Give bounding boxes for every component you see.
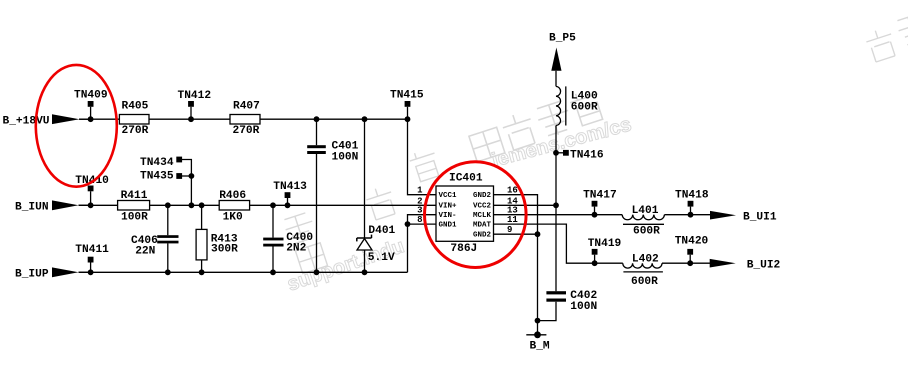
svg-text:270R: 270R [233,125,260,137]
svg-text:MCLK: MCLK [473,212,492,220]
svg-text:B_UI2: B_UI2 [747,259,781,271]
wire IC pin 11 MDAT elbow to L402 row [494,224,623,263]
test point TN410 [75,175,109,206]
wire IC pin 8 stub to riser [408,223,437,225]
wire L401 to B_UI1 arrow [664,214,710,216]
junction node C406 bottom [165,269,171,275]
svg-text:8: 8 [417,215,422,225]
svg-text:B_M: B_M [530,340,550,352]
svg-text:TN411: TN411 [75,244,109,256]
svg-text:270R: 270R [122,125,149,137]
svg-text:B_+18VU: B_+18VU [3,116,50,128]
resistor R413 [196,229,238,260]
port B_UI2 output arrow [710,259,781,271]
junction node TN416 [553,150,559,156]
svg-text:100N: 100N [570,301,597,313]
wire IC pin 14 to B_P5 rail [494,204,557,206]
svg-text:TN415: TN415 [390,90,424,102]
svg-text:TN416: TN416 [570,149,604,161]
svg-text:B_P5: B_P5 [549,32,576,44]
svg-text:2N2: 2N2 [286,243,306,255]
wire D401 branch [364,119,366,238]
test point TN420 [675,236,709,264]
wire TN434 stub and riser to B_IUN rail [182,160,191,206]
junction node TN420 [687,260,693,266]
svg-text:786J: 786J [450,243,477,255]
wire net B_+18VU top rail [79,118,408,120]
svg-text:22N: 22N [135,245,155,257]
junction node TN418 [688,212,694,218]
junction node pin9 rail [535,231,541,237]
svg-text:B_IUP: B_IUP [15,269,49,281]
svg-text:9: 9 [507,225,512,235]
capacitor C406 [131,235,179,257]
test point TN409 [74,90,108,120]
junction node C400 bottom [270,269,276,275]
inductor L400 [556,86,598,125]
wire IC pin 9 stub [494,233,538,235]
test point TN415 [390,90,424,120]
test point TN417 [583,190,617,215]
port B_IUN input arrow [15,200,88,213]
svg-text:TN434: TN434 [140,157,174,169]
svg-text:300R: 300R [211,244,238,256]
svg-text:600R: 600R [571,101,598,113]
svg-text:L402: L402 [632,253,659,265]
junction node pin14 B_P5 [553,202,559,208]
zener diode D401 5.1V [357,225,396,264]
svg-text:GND2: GND2 [473,192,492,200]
svg-text:VIN-: VIN- [439,212,457,220]
svg-text:B_IUN: B_IUN [15,202,49,214]
svg-text:VCC1: VCC1 [439,192,458,200]
svg-text:100R: 100R [121,212,148,224]
svg-text:GND1: GND1 [439,221,458,229]
svg-text:TN409: TN409 [74,90,108,102]
svg-text:IC401: IC401 [449,172,483,184]
junction node TN409 [88,116,94,122]
svg-text:TN413: TN413 [273,181,307,193]
svg-text:R406: R406 [219,190,246,202]
resistor R405 [119,101,149,137]
wire TN435 stub [182,175,191,177]
wire C401 branch [316,119,318,145]
svg-text:11: 11 [507,215,518,225]
svg-text:MDAT: MDAT [473,221,492,229]
svg-text:R405: R405 [122,101,149,113]
wire B_P5 vertical rail [555,71,557,87]
resistor R406 [219,190,249,224]
test point TN434 [140,157,182,169]
svg-text:1K0: 1K0 [223,212,243,224]
junction node TN417 [592,212,598,218]
svg-text:B_UI1: B_UI1 [743,211,777,223]
wire C402 bottom elbow to ground rail [538,302,557,321]
junction node D401 bottom [362,269,368,275]
port B_P5 output arrow up [549,32,576,71]
svg-text:L401: L401 [632,205,659,217]
svg-text:1: 1 [417,186,423,196]
junction node pin8 riser [405,221,411,227]
wire net B_IUN rail to IC pin 2 [79,204,437,206]
svg-text:100N: 100N [332,151,359,163]
wire C400 branch [272,205,274,237]
junction node C401 top [314,116,320,122]
capacitor C400 [263,232,313,255]
svg-text:TN417: TN417 [583,190,617,202]
port B_+18VU input arrow [3,114,89,127]
svg-text:TN418: TN418 [675,190,709,202]
junction node TN412 [188,116,194,122]
resistor R411 [118,190,150,224]
junction node TN411 [88,269,94,275]
svg-text:D401: D401 [368,225,395,237]
highlight circle around IC401 [425,162,527,268]
junction node TN435 [189,173,195,179]
junction node D401 top [362,116,368,122]
junction node TN413 [285,202,291,208]
junction node R413 top [199,202,205,208]
op-amp IC401 786J body [436,172,494,255]
test point TN418 [675,190,709,215]
wire net B_IUP bottom rail [79,271,408,273]
wire IC pin 13 MCLK row to L401 [494,214,623,216]
power symbol B_M [526,331,550,352]
inductor L402 [623,253,663,288]
wire B_M stub [537,321,539,335]
wire L402 to B_UI2 arrow [662,262,710,264]
wire IC pin 16 to ground rail [494,195,538,321]
svg-text:TN419: TN419 [588,238,622,250]
port B_IUP input arrow [15,267,88,280]
svg-text:600R: 600R [633,225,660,237]
resistor R407 [230,101,260,137]
wire R413 branch [201,205,203,229]
svg-text:16: 16 [507,186,518,196]
svg-text:VIN+: VIN+ [439,203,458,211]
test point TN412 [178,90,212,119]
svg-text:GND2: GND2 [473,232,492,240]
test point TN435 [140,171,182,183]
svg-text:TN435: TN435 [140,171,174,183]
junction node TN419 [592,260,598,266]
junction node C401 bottom [314,269,320,275]
junction node TN410 [88,202,94,208]
svg-text:TN412: TN412 [178,90,212,102]
capacitor C402 [546,290,597,313]
svg-text:TN420: TN420 [675,236,709,248]
svg-text:600R: 600R [631,276,658,288]
svg-text:VCC2: VCC2 [473,203,492,211]
svg-text:R407: R407 [233,101,260,113]
svg-text:5.1V: 5.1V [368,252,395,264]
highlight ellipse around TN409/TN410 [36,65,117,187]
test point TN411 [75,244,109,272]
capacitor C401 [307,141,358,164]
wire C406 branch [167,205,169,235]
junction node B_M elbow [535,318,541,324]
junction node TN434 riser [189,202,195,208]
wire pin1 riser from TN415 node down to IC pin 1 [408,119,437,195]
test point TN416 [556,149,604,161]
junction node R413 bottom [199,269,205,275]
junction node TN415 [405,116,411,122]
junction node C400 top [270,202,276,208]
port B_UI1 output arrow [710,211,777,223]
wire riser from B_IUP rail to IC pin 3 [408,215,437,273]
inductor L401 [622,205,664,238]
test point TN413 [273,181,307,206]
test point TN419 [588,238,622,263]
junction node C406 top [165,202,171,208]
svg-text:R411: R411 [121,190,148,202]
